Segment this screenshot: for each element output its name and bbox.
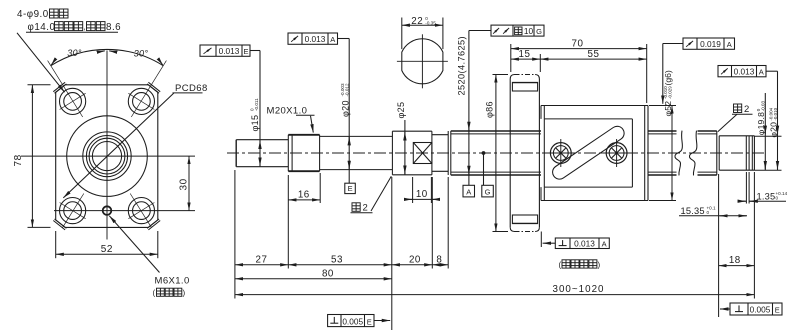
svg-text:2: 2	[744, 104, 749, 115]
nut set screw left	[546, 139, 575, 167]
nut flange flat band bottom	[512, 215, 537, 224]
dimension 52	[56, 231, 158, 258]
svg-text:A: A	[727, 40, 732, 49]
svg-text:27: 27	[256, 254, 268, 265]
svg-text:0.013: 0.013	[574, 238, 595, 248]
svg-text:0: 0	[707, 210, 710, 215]
svg-text:A: A	[759, 68, 764, 77]
svg-text:10: 10	[416, 189, 428, 200]
bolt hole top-left	[48, 61, 86, 117]
bottom holes horizontal centerline	[54, 210, 195, 212]
M20 thread section	[288, 135, 319, 171]
svg-text:22: 22	[411, 16, 423, 27]
svg-text:-0.029: -0.029	[667, 86, 672, 99]
flange corner chamfer bottom-left	[53, 219, 66, 230]
nut flange flat band top	[512, 82, 537, 91]
svg-text:10: 10	[524, 26, 534, 36]
hardening range note	[559, 260, 601, 270]
svg-text:80: 80	[322, 268, 334, 279]
svg-text:16: 16	[298, 190, 310, 201]
dimension 1.35	[738, 191, 788, 202]
svg-text:0.019: 0.019	[700, 39, 721, 49]
svg-text:φ14.0: φ14.0	[28, 22, 56, 33]
flange spigot circle	[67, 116, 148, 197]
dimension 22 across flats	[402, 16, 443, 49]
svg-text:0.013: 0.013	[734, 67, 755, 77]
svg-text:-0.011: -0.011	[254, 98, 259, 111]
nut flange plate	[510, 75, 539, 232]
svg-text:20: 20	[409, 254, 421, 265]
svg-text:18: 18	[729, 255, 741, 266]
flange corner chamfer top-left	[53, 82, 66, 93]
oil hole	[103, 206, 112, 215]
datum E under phi20	[345, 183, 356, 193]
svg-text:0: 0	[776, 196, 779, 201]
svg-text:70: 70	[572, 38, 584, 49]
svg-text:30°: 30°	[134, 49, 149, 59]
GDT frame 0.013 A right	[718, 66, 778, 171]
phi20 label right	[768, 107, 778, 137]
GDT frame perp 0.005 E left	[328, 315, 391, 327]
phi86 dimension	[484, 75, 508, 232]
svg-text:): )	[183, 289, 186, 298]
shaft centerline	[227, 152, 764, 154]
svg-text:E: E	[348, 184, 353, 193]
flange bore circle 2	[86, 136, 127, 177]
flange bore circle 1	[83, 132, 131, 180]
svg-text:G: G	[485, 188, 491, 197]
phi20 section	[320, 136, 393, 169]
GDT frame table10 G	[469, 25, 544, 185]
dimension 78	[13, 85, 51, 228]
nut set screw right	[602, 139, 631, 167]
M20X1.0 label	[267, 106, 315, 133]
svg-text:0.005: 0.005	[342, 316, 363, 326]
nut body	[541, 106, 648, 201]
dimension 30	[179, 156, 190, 211]
flange front view outline	[56, 85, 158, 228]
phi52 g6 label	[663, 70, 673, 116]
GDT frame perp 0.013 A	[541, 232, 609, 249]
svg-text:1.35: 1.35	[757, 192, 776, 202]
svg-text:-0.010: -0.010	[773, 107, 778, 120]
svg-text:0.013: 0.013	[219, 46, 240, 56]
wrench flats crossed box	[413, 143, 432, 164]
flange bore circle 3	[89, 138, 125, 174]
section circle centerlines	[397, 34, 448, 88]
phi19.8 dimension line	[754, 93, 781, 170]
datum A under screw	[463, 185, 475, 197]
svg-text:4-φ9.0: 4-φ9.0	[17, 9, 49, 20]
phi52 dimension	[649, 106, 676, 201]
svg-text:15.35: 15.35	[681, 206, 705, 216]
svg-text:φ19.8: φ19.8	[756, 112, 766, 135]
svg-text:300~1020: 300~1020	[552, 284, 604, 295]
phi25 dimension	[396, 102, 406, 175]
svg-text:(: (	[559, 261, 562, 270]
note 2 left	[351, 176, 392, 213]
shaft end phi15 section	[236, 140, 288, 167]
svg-text:φ15: φ15	[250, 115, 260, 132]
svg-text:E: E	[775, 306, 780, 315]
svg-text:30°: 30°	[67, 48, 82, 58]
GDT frame perp 0.005 E right	[720, 303, 782, 315]
svg-text:M6X1.0: M6X1.0	[155, 276, 190, 287]
svg-text:(: (	[153, 289, 156, 298]
svg-text:φ86: φ86	[484, 101, 494, 118]
phi20 label left	[340, 83, 350, 117]
shaft break lines	[675, 131, 697, 176]
svg-text:A: A	[330, 35, 335, 44]
svg-text:30: 30	[179, 178, 190, 190]
svg-text:52: 52	[101, 244, 113, 255]
svg-text:E: E	[243, 47, 248, 56]
bolt hole bottom-right	[128, 194, 154, 228]
neck section	[432, 135, 448, 172]
dimension 70	[511, 38, 647, 49]
dimension chain 27 53 20 8	[235, 254, 448, 265]
nut dimension extension lines	[511, 44, 647, 103]
screw designation 2520	[456, 36, 466, 95]
svg-text:2520(4.7625): 2520(4.7625)	[456, 36, 466, 95]
shaft section view circle with flats	[402, 39, 443, 84]
M6X1.0 label	[109, 216, 189, 298]
svg-text:8: 8	[436, 254, 442, 265]
svg-text:,: ,	[84, 22, 86, 31]
screw end face	[717, 131, 719, 175]
dimension 15 and 55	[511, 49, 647, 60]
right journal phi20	[719, 136, 754, 170]
screw thread crest/root left	[451, 131, 541, 175]
phi19.8 label	[756, 100, 766, 135]
svg-text:φ52: φ52	[663, 101, 673, 117]
screw thread crest/root right	[648, 131, 717, 175]
bolt hole bottom-left	[60, 194, 86, 228]
flange horizontal centerline	[21, 155, 195, 157]
svg-text:φ25: φ25	[396, 102, 406, 119]
svg-text:2: 2	[363, 203, 368, 214]
svg-text:A: A	[466, 188, 471, 197]
phi25 section	[392, 131, 432, 175]
dimension 15.35	[679, 206, 747, 217]
GDT frame 0.013 A mid-left	[288, 33, 349, 183]
bolt hole top-right	[128, 61, 166, 117]
flange bore circle 4	[92, 142, 121, 171]
dimension 80	[235, 268, 392, 279]
svg-text:G: G	[536, 27, 542, 36]
svg-text:15: 15	[519, 49, 531, 60]
PCD68 leader	[63, 83, 207, 198]
flange corner chamfer bottom-right	[147, 219, 160, 230]
svg-text:-0.03: -0.03	[760, 100, 765, 111]
svg-text:0.005: 0.005	[750, 305, 771, 315]
svg-text:0.013: 0.013	[305, 34, 326, 44]
svg-text:): )	[598, 261, 601, 270]
GDT frame 0.013 E left	[200, 45, 260, 167]
datum G under screw	[482, 151, 494, 197]
svg-text:E: E	[367, 317, 372, 326]
dimension 18	[719, 255, 755, 266]
extension lines bottom	[235, 170, 755, 330]
30deg dimension arc	[51, 48, 163, 66]
screw start chamfer	[448, 131, 451, 175]
svg-text:-0.012: -0.012	[345, 83, 350, 96]
dimension 300-1020	[235, 284, 755, 295]
flange vertical centerline	[106, 51, 108, 240]
label slot obround	[553, 126, 625, 179]
svg-text:78: 78	[13, 154, 24, 166]
dimension 10	[404, 189, 440, 200]
svg-text:φ20: φ20	[769, 122, 779, 138]
counterbore note	[17, 9, 121, 92]
svg-text:(g6): (g6)	[663, 70, 673, 85]
nut flat face	[544, 119, 632, 187]
GDT frame 0.019 A	[663, 38, 735, 104]
dimension 16	[288, 190, 320, 201]
svg-text:53: 53	[331, 254, 343, 265]
svg-text:A: A	[602, 239, 607, 248]
circlip groove	[746, 136, 749, 170]
flange corner chamfer top-right	[147, 82, 160, 93]
phi15 label	[250, 98, 260, 132]
svg-text:8.6: 8.6	[106, 22, 121, 33]
svg-text:55: 55	[588, 49, 600, 60]
svg-text:-0.35: -0.35	[425, 20, 436, 25]
svg-text:φ20: φ20	[340, 100, 350, 117]
note 2 right	[718, 104, 753, 132]
